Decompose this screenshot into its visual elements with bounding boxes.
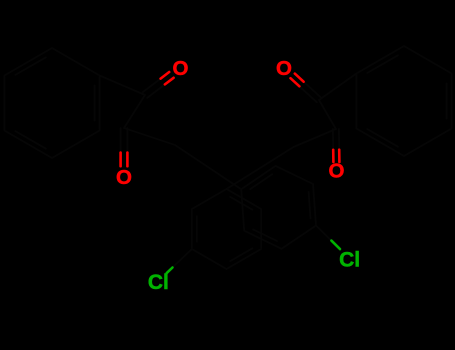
svg-text:O: O — [276, 57, 292, 80]
svg-text:O: O — [173, 57, 189, 80]
svg-text:O: O — [116, 166, 132, 189]
svg-text:Cl: Cl — [148, 271, 169, 294]
svg-text:Cl: Cl — [339, 249, 360, 272]
svg-text:O: O — [329, 160, 345, 183]
